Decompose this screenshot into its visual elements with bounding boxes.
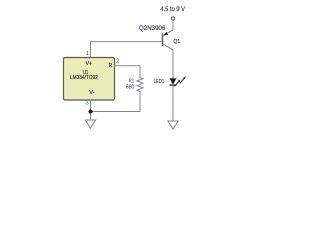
IC U1 body — [64, 58, 115, 101]
ground symbol (V- node) — [85, 120, 95, 128]
ground symbol (LED) — [168, 121, 178, 129]
wire base horizontal — [91, 41, 163, 43]
svg-text:LM334/TO92: LM334/TO92 — [70, 75, 98, 81]
svg-text:1: 1 — [86, 51, 90, 57]
wire LED to ground — [172, 85, 174, 121]
svg-text:4.5 to 9 V: 4.5 to 9 V — [160, 7, 185, 13]
svg-text:Q1: Q1 — [173, 39, 180, 45]
transistor Q1 (PNP) — [163, 30, 174, 50]
wire terminal to Q1 emitter — [172, 20, 174, 30]
svg-text:680: 680 — [126, 85, 135, 91]
svg-text:2: 2 — [116, 59, 120, 65]
wire pin 1 riser — [90, 42, 92, 58]
wire collector to LED — [172, 50, 174, 79]
power terminal — [171, 17, 174, 20]
junction dot — [89, 110, 93, 114]
svg-text:Q2N3906: Q2N3906 — [139, 26, 166, 32]
resistor R1 — [137, 66, 143, 96]
LED LED1 — [170, 77, 186, 87]
svg-text:LED1: LED1 — [154, 79, 165, 85]
wire R1 bottom to V- node — [91, 96, 141, 112]
svg-text:R: R — [109, 63, 113, 69]
wire pin 2 horizontal — [115, 65, 141, 67]
svg-text:V+: V+ — [86, 61, 92, 67]
svg-text:3: 3 — [85, 100, 89, 106]
svg-text:V-: V- — [89, 90, 95, 96]
wire pin 3 down to ground — [90, 100, 92, 120]
